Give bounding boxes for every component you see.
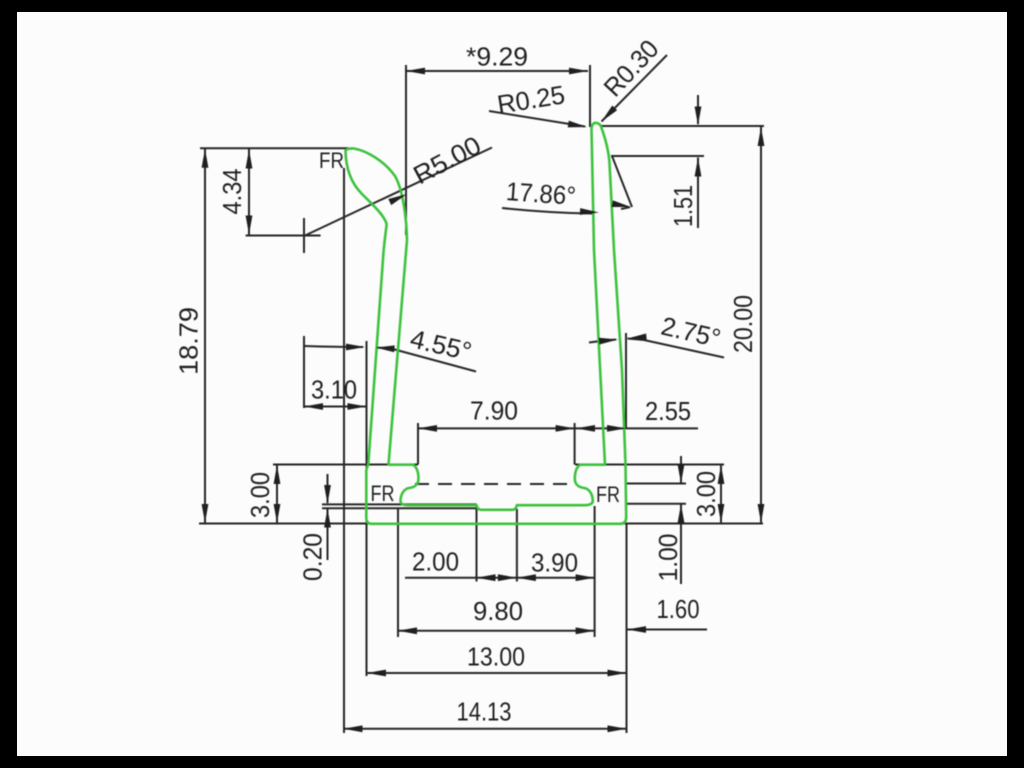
svg-text:FR: FR — [371, 481, 395, 506]
svg-text:1.00: 1.00 — [653, 534, 683, 582]
svg-text:7.90: 7.90 — [470, 396, 518, 426]
svg-text:18.79: 18.79 — [174, 307, 204, 375]
svg-text:17.86°: 17.86° — [505, 176, 577, 211]
svg-text:FR: FR — [596, 482, 620, 507]
svg-text:2.00: 2.00 — [412, 547, 459, 577]
svg-text:FR: FR — [319, 148, 344, 173]
svg-text:*9.29: *9.29 — [466, 42, 528, 72]
svg-text:3.00: 3.00 — [245, 472, 275, 518]
svg-text:13.00: 13.00 — [467, 642, 525, 672]
svg-text:R5.00: R5.00 — [408, 130, 486, 190]
svg-text:2.55: 2.55 — [645, 396, 691, 426]
svg-text:R0.25: R0.25 — [495, 79, 567, 119]
svg-text:3.90: 3.90 — [531, 548, 578, 578]
svg-text:2.75°: 2.75° — [658, 311, 723, 354]
svg-text:0.20: 0.20 — [298, 533, 328, 581]
svg-text:4.55°: 4.55° — [407, 323, 474, 366]
svg-text:1.51: 1.51 — [668, 185, 698, 227]
svg-text:9.80: 9.80 — [473, 596, 523, 626]
svg-text:3.00: 3.00 — [691, 471, 721, 517]
svg-text:20.00: 20.00 — [728, 295, 758, 353]
svg-text:3.10: 3.10 — [311, 375, 357, 405]
svg-text:14.13: 14.13 — [457, 696, 512, 726]
svg-text:1.60: 1.60 — [657, 594, 700, 624]
svg-text:4.34: 4.34 — [217, 169, 247, 215]
